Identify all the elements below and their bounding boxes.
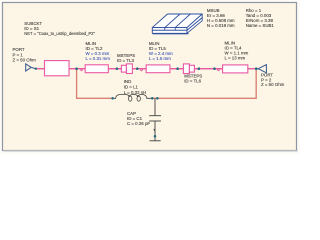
svg-text:Z = 50 Ohm: Z = 50 Ohm	[13, 57, 37, 62]
svg-text:Z = 50 Ohm: Z = 50 Ohm	[261, 82, 285, 87]
svg-text:NET = "Coax_to_ustrip_deembed_: NET = "Coax_to_ustrip_deembed_P2"	[24, 31, 95, 36]
svg-text:ID = TL6: ID = TL6	[184, 78, 201, 83]
svg-text:ID = L1: ID = L1	[124, 84, 139, 89]
svg-text:L = 13 mm: L = 13 mm	[225, 56, 246, 61]
svg-text:L = 0.31 mm: L = 0.31 mm	[86, 56, 111, 61]
svg-text:N = 0.018 mm: N = 0.018 mm	[207, 23, 235, 28]
svg-text:IND: IND	[124, 79, 132, 84]
svg-text:L = 1.5 mm: L = 1.5 mm	[149, 56, 171, 61]
svg-text:L = 0.32 nH: L = 0.32 nH	[124, 90, 147, 95]
svg-text:C = 0.26 pF: C = 0.26 pF	[127, 121, 150, 126]
svg-text:Name = SUB1: Name = SUB1	[246, 23, 275, 28]
svg-text:ID = TL3: ID = TL3	[117, 58, 134, 63]
